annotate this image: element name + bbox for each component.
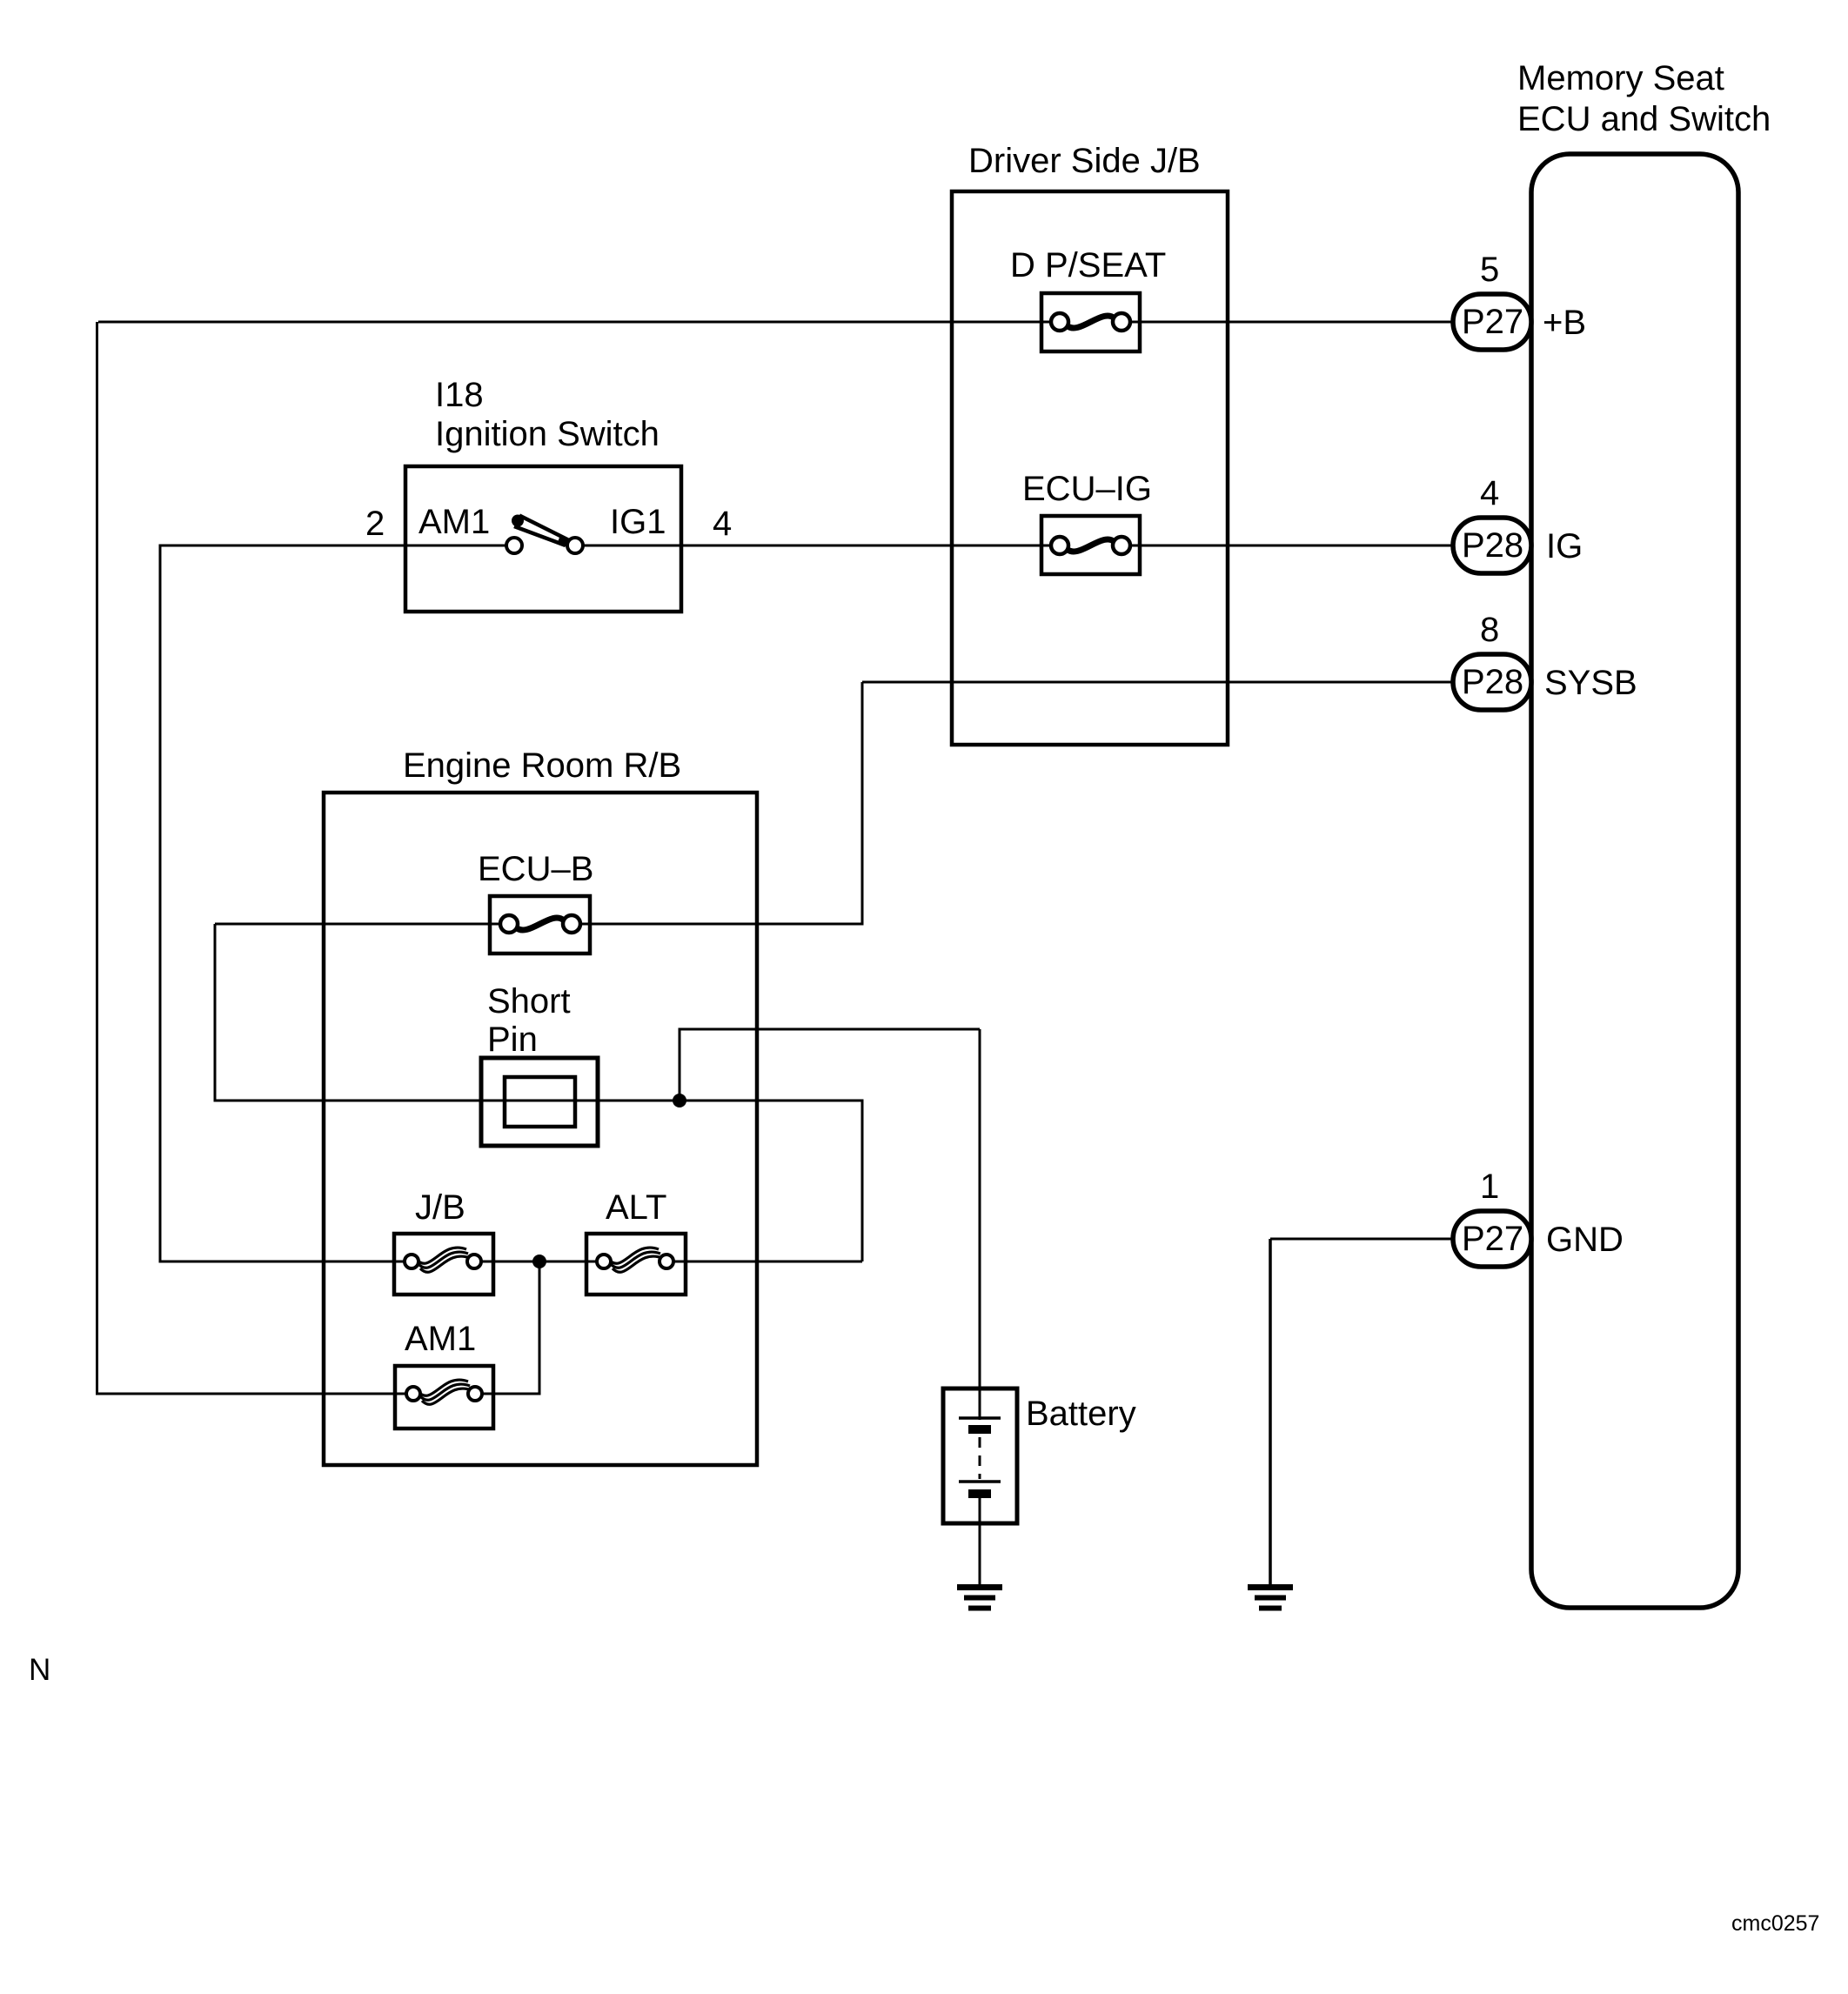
wire SYSB row [862,681,1453,684]
svg-text:+B: +B [1543,304,1586,342]
svg-text:Driver Side J/B: Driver Side J/B [968,142,1201,180]
Engine Room R/B box [324,793,757,1465]
battery cell 2 short plate [968,1489,991,1498]
battery cell 2 long plate [959,1480,1001,1483]
fuse ECU-B [490,896,590,954]
wire J/B ALT row [160,1261,862,1263]
wire vertical x247 ECU-B-to-ShortPin [214,924,217,1101]
svg-text:IG1: IG1 [610,503,666,541]
wire battery negative to ground [979,1496,981,1585]
svg-text:8: 8 [1480,611,1499,649]
connector pin oval P27 +B (pin 5) [1453,294,1531,350]
svg-text:4: 4 [713,505,732,543]
short pin outer box [481,1058,598,1146]
ground (GND pin) [1248,1588,1293,1609]
wire vertical x991 SYSB-to-ECU-B [861,682,864,924]
svg-text:Pin: Pin [487,1020,538,1059]
svg-text:J/B: J/B [415,1188,465,1227]
svg-text:4: 4 [1480,474,1499,512]
battery cell 1 long plate [959,1416,1001,1420]
ignition switch contact AM1 [506,538,522,553]
wire vertical x991 ShortPin-to-ALT [861,1101,864,1261]
svg-text:IG: IG [1546,527,1583,565]
wire Short Pin row [214,1100,864,1102]
ignition switch contact IG1 [567,538,583,553]
junction node J/B-ALT row [532,1255,546,1268]
svg-text:GND: GND [1546,1221,1624,1259]
wire IG row right (IG1 contact through ECU-IG fuse to P28 IG pin) [581,545,1453,547]
Driver Side J/B box [952,191,1228,745]
svg-text:N: N [29,1653,50,1687]
junction node short-pin row [673,1094,686,1107]
svg-text:5: 5 [1480,251,1499,289]
svg-text:P28: P28 [1462,663,1523,701]
wire GND row (P27 GND pin to ground) [1270,1238,1453,1241]
Memory Seat ECU connector body [1531,154,1738,1608]
svg-text:Memory Seat: Memory Seat [1517,59,1724,97]
svg-text:AM1: AM1 [418,503,490,541]
wire vertical AM1-to-junction x620 [539,1261,541,1395]
svg-text:ECU–B: ECU–B [478,850,593,888]
wire battery feed vertical x1126 [979,1029,981,1420]
svg-text:Ignition Switch: Ignition Switch [435,415,660,453]
fusible link AM1 [395,1366,493,1429]
wire vertical x184 (ignition switch pin2 down to J/B fuse) [159,545,162,1263]
svg-text:2: 2 [365,505,385,543]
connector pin oval P28 SYSB (pin 8) [1453,654,1531,710]
svg-text:cmc0257: cmc0257 [1731,1911,1819,1936]
wire IG row left (to ignition switch AM1 contact) [159,545,510,547]
wire far-left vertical (+B feed down to AM1 fuse) [96,322,98,1394]
svg-text:Short: Short [487,982,571,1020]
battery box [943,1388,1017,1523]
svg-text:ECU–IG: ECU–IG [1022,470,1152,508]
fuse D P/SEAT [1041,293,1140,351]
wire +B row (B+ from far left to P27 +B pin) [98,321,1453,324]
wire AM1 fuse row left [96,1393,395,1395]
wire AM1 fuse row right [493,1393,540,1395]
svg-text:ALT: ALT [606,1188,666,1227]
svg-text:D P/SEAT: D P/SEAT [1010,246,1166,284]
ignition switch lever [512,515,524,527]
svg-text:1: 1 [1480,1168,1499,1206]
connector pin oval P28 IG (pin 4) [1453,518,1531,573]
svg-text:P28: P28 [1462,526,1523,565]
svg-text:P27: P27 [1462,303,1523,341]
fusible link J/B [394,1234,493,1295]
wire junction riser x781 [679,1029,681,1101]
wire ECU-B row [215,923,864,926]
ground (battery) [957,1588,1002,1609]
svg-text:SYSB: SYSB [1544,664,1637,702]
ignition switch box I18 [405,466,681,612]
wire GND vertical x1460 [1269,1239,1272,1585]
svg-text:ECU and Switch: ECU and Switch [1517,100,1771,138]
svg-text:I18: I18 [435,376,484,414]
short pin inner box [505,1077,575,1127]
svg-text:Battery: Battery [1026,1395,1136,1433]
connector pin oval P27 GND (pin 1) [1453,1211,1531,1267]
svg-text:AM1: AM1 [405,1320,476,1358]
battery dashed link [979,1437,981,1479]
svg-text:Engine Room R/B: Engine Room R/B [403,746,681,785]
fusible link ALT [586,1234,686,1295]
svg-text:P27: P27 [1462,1220,1523,1258]
battery cell 1 short plate [968,1425,991,1434]
fuse ECU-IG [1041,516,1140,574]
wire battery feed horizontal y1183 [679,1028,981,1031]
